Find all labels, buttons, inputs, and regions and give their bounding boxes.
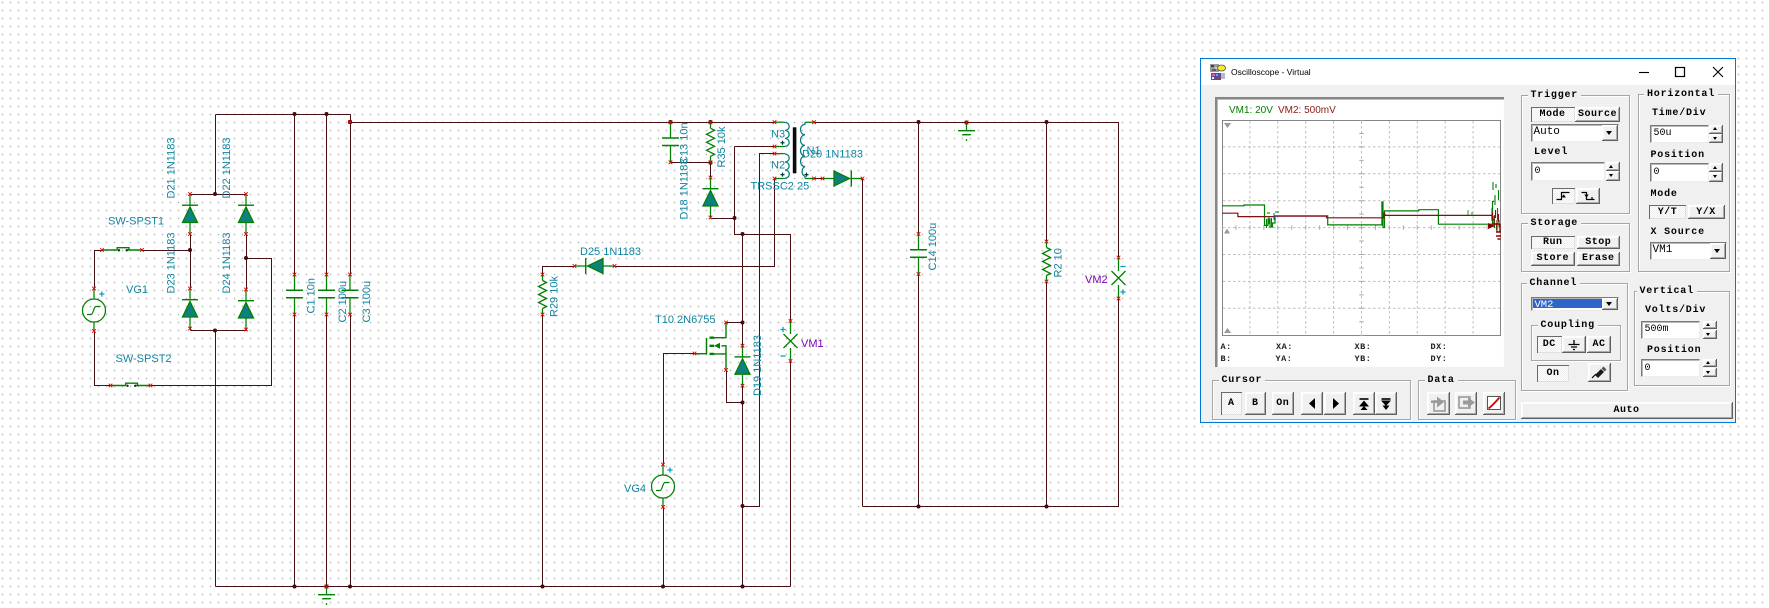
- svg-text:C2 100u: C2 100u: [337, 281, 349, 323]
- junction bridge top: [213, 192, 217, 196]
- diode D21 1N1183: [182, 192, 198, 236]
- voltmeter VM2: [1112, 256, 1126, 301]
- junction ground top right: [965, 121, 969, 125]
- junction N2top-return: [741, 504, 745, 508]
- Vertical group: [1634, 291, 1730, 386]
- svg-text:C1 10n: C1 10n: [306, 278, 318, 313]
- wire top rail y114: [216, 114, 351, 116]
- diode D23 1N1183: [182, 287, 198, 331]
- svg-text:D25 1N1183: D25 1N1183: [580, 246, 641, 258]
- diode D18 1N1183: [703, 176, 719, 220]
- junction C2 bottom: [325, 585, 329, 589]
- wire VG4 to bottom rail: [663, 508, 665, 587]
- svg-text:D22 1N1183: D22 1N1183: [221, 138, 233, 199]
- capacitor C3 100u: [342, 273, 359, 317]
- wire R2 top: [1046, 123, 1048, 242]
- Horizontal group: [1638, 94, 1730, 272]
- voltage source VG1: [83, 287, 106, 333]
- junction C3 bottom: [348, 585, 352, 589]
- wire SW-SPST2 to VG1-: [95, 332, 111, 386]
- Data group: [1418, 380, 1516, 420]
- svg-text:C3 100u: C3 100u: [361, 281, 373, 323]
- wire rail step: [350, 115, 352, 123]
- resistor R2 10: [1043, 240, 1051, 284]
- wire R2 bottom: [1046, 282, 1048, 507]
- svg-text:SW-SPST1: SW-SPST1: [108, 216, 164, 228]
- junction source: [741, 401, 745, 405]
- Cursor group: [1212, 380, 1412, 420]
- junction R2 bottom rail: [1045, 505, 1049, 509]
- diode D24 1N1183: [238, 288, 254, 332]
- svg-text:D18 1N1183: D18 1N1183: [679, 159, 691, 220]
- resistor R35 10k: [707, 121, 715, 165]
- junction C2 top: [325, 112, 329, 116]
- junction C14 bottom rail: [917, 505, 921, 509]
- diode D22 1N1183: [238, 192, 254, 236]
- svg-text:VM1: VM1: [801, 338, 824, 350]
- junction C1 top: [293, 112, 297, 116]
- wire VM1 bottom to rail: [790, 362, 792, 587]
- diode D25 1N1183: [573, 258, 617, 274]
- wire bridge top to rail: [215, 115, 217, 195]
- Channel group: [1521, 283, 1629, 391]
- svg-text:VM2: VM2: [1085, 274, 1108, 286]
- wire node B to SW-SPST2: [152, 259, 272, 386]
- wire D19 anode down: [742, 386, 744, 403]
- wire C3 top: [350, 123, 352, 275]
- wire C13 bottom to R35: [671, 162, 711, 164]
- junction R35 top: [709, 120, 713, 124]
- wire drain link: [727, 322, 743, 324]
- junction VG4 bottom: [661, 585, 665, 589]
- svg-text:D21 1N1183: D21 1N1183: [166, 138, 178, 199]
- wire node to drain: [742, 235, 744, 323]
- wire C14 top: [918, 123, 920, 235]
- wire D21 to node A: [190, 235, 192, 289]
- wire bridge bottom to ground rail: [215, 331, 217, 587]
- wire D23 to bottom bridge: [190, 329, 192, 331]
- wire bottom rail: [216, 586, 791, 588]
- wire C3 bottom: [350, 315, 352, 587]
- svg-text:R2 10: R2 10: [1053, 248, 1065, 277]
- svg-text:N2: N2: [771, 160, 785, 172]
- wire C1 bottom: [294, 315, 296, 587]
- voltmeter VM1: [780, 319, 797, 363]
- svg-text:D24 1N1183: D24 1N1183: [221, 233, 233, 294]
- wire D18 anode link: [711, 218, 735, 220]
- wire gate to VG4: [664, 354, 695, 466]
- wire SW-SPST1 to bridge node A: [143, 250, 191, 252]
- junction node B: [244, 256, 248, 260]
- junction snubber: [741, 232, 745, 236]
- Storage group: [1521, 223, 1631, 273]
- junction bridge bottom: [213, 329, 217, 333]
- wire D24 bottom: [246, 330, 248, 331]
- capacitor C1 10n: [286, 273, 303, 317]
- voltage source VG4: [652, 463, 675, 509]
- diode D20 1N1183: [821, 171, 865, 187]
- junction C3 top: [348, 120, 352, 124]
- svg-text:N3: N3: [771, 129, 785, 141]
- ground top right: [958, 121, 975, 141]
- capacitor C14 100u: [910, 232, 927, 276]
- wire C2 bottom: [326, 315, 328, 587]
- svg-text:VG1: VG1: [126, 284, 148, 296]
- wire D20 down right: [862, 179, 864, 507]
- capacitor C2 100u: [318, 273, 335, 317]
- wire snubber node down: [735, 219, 743, 235]
- wire node to VM1 top: [743, 235, 791, 322]
- junction R35 bottom: [709, 161, 713, 165]
- wire C14 bottom: [918, 275, 920, 507]
- svg-text:D19 1N1183: D19 1N1183: [752, 335, 764, 396]
- switch SW-SPST2: [109, 383, 153, 387]
- wire N3 bottom link: [735, 147, 775, 219]
- wire drain to D19: [742, 323, 744, 346]
- svg-text:R35 10k: R35 10k: [716, 126, 728, 167]
- svg-text:C13 10n: C13 10n: [679, 122, 691, 164]
- svg-text:SW-SPST2: SW-SPST2: [116, 353, 172, 365]
- resistor R29 10k: [539, 273, 547, 317]
- pin mark C3 top junction: [348, 120, 352, 124]
- Auto button: [1521, 402, 1733, 419]
- wire source down: [727, 371, 743, 403]
- pin mark ground rail junction: [325, 585, 329, 589]
- diode D19 1N1183: [735, 344, 751, 388]
- junction D18-N3: [733, 216, 737, 220]
- svg-text:D23 1N1183: D23 1N1183: [166, 233, 178, 294]
- junction C13 top: [669, 120, 673, 124]
- wire C2 top: [326, 115, 328, 275]
- wire R35 to D18: [710, 163, 712, 178]
- transistor T10 2N6755: [693, 321, 728, 372]
- wire R29 to bottom rail: [542, 315, 544, 587]
- Trigger group: [1521, 95, 1631, 214]
- wire N2 top link: [743, 154, 775, 507]
- transformer TRSSC2 25: [773, 120, 816, 180]
- svg-text:TRSSC2 25: TRSSC2 25: [751, 181, 810, 193]
- wire bottom right rail: [863, 299, 1119, 507]
- wire C1 top: [294, 115, 296, 275]
- svg-text:N1: N1: [807, 145, 821, 157]
- junction C1 bottom: [293, 585, 297, 589]
- wire bridge bottom rail: [191, 330, 247, 332]
- junction C14 top rail: [917, 120, 921, 124]
- svg-text:R29 10k: R29 10k: [549, 276, 561, 317]
- wire N1 to D20: [815, 178, 823, 180]
- wire N2 bottom to D25: [615, 179, 775, 267]
- wire source node to bottom rail: [742, 403, 744, 587]
- wire top rail y122: [351, 122, 775, 124]
- oscilloscope window title bar: [1201, 59, 1735, 85]
- junction R29 bottom: [541, 585, 545, 589]
- junction R2 top rail: [1045, 120, 1049, 124]
- junction drain: [741, 321, 745, 325]
- wire bridge top rail: [191, 194, 247, 196]
- junction source rail: [741, 585, 745, 589]
- junction node A: [188, 248, 192, 252]
- ground bottom: [318, 585, 335, 605]
- scope display panel: [1215, 97, 1504, 367]
- svg-text:C14 100u: C14 100u: [927, 223, 939, 271]
- switch SW-SPST1: [100, 248, 144, 252]
- svg-text:T10 2N6755: T10 2N6755: [655, 314, 716, 326]
- wire VG1+ to SW-SPST1: [95, 251, 103, 289]
- capacitor C13 10n: [662, 121, 679, 165]
- wire D25 to R29: [543, 267, 575, 275]
- wire top right rail: [815, 123, 1119, 258]
- wire D22 to node B: [246, 235, 248, 290]
- svg-text:VG4: VG4: [624, 483, 646, 495]
